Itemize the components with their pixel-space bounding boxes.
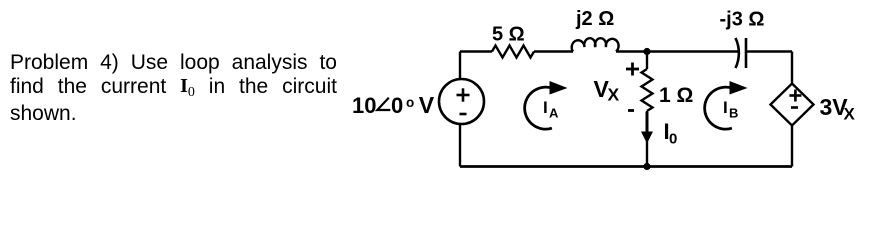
svg-text:0: 0 [391,93,403,118]
svg-text:1 Ω: 1 Ω [659,84,693,107]
svg-text:5 Ω: 5 Ω [492,24,525,46]
svg-text:10: 10 [352,93,376,118]
svg-text:X: X [608,85,620,105]
svg-text:I: I [723,98,728,117]
svg-text:A: A [549,106,559,121]
svg-text:X: X [844,105,856,124]
svg-text:B: B [729,106,738,121]
svg-text:-j3 Ω: -j3 Ω [720,8,765,30]
svg-text:j2 Ω: j2 Ω [575,8,614,30]
svg-text:oV: oV [406,92,435,118]
svg-text:I: I [543,98,548,117]
svg-text:0: 0 [669,131,677,148]
